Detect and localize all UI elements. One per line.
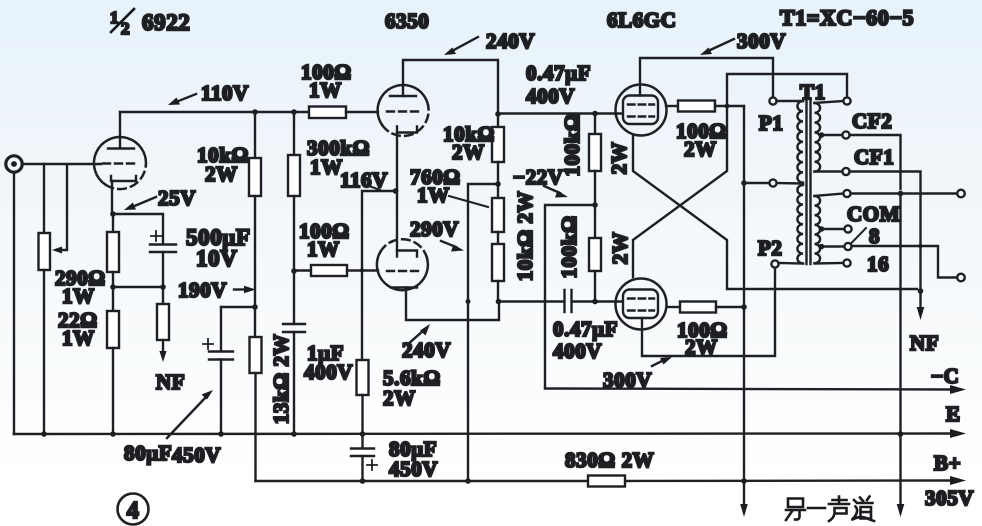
wire: NF stub with down arrow [159, 340, 166, 362]
wire: 25V node right to 500uF [113, 214, 163, 244]
svg-text:190V: 190V [178, 278, 227, 302]
resistor 13kΩ 2W [250, 337, 262, 373]
node: 116V cathode tail node [393, 188, 399, 194]
capacitor 1µF 400V [283, 324, 305, 332]
svg-text:116V: 116V [340, 168, 388, 192]
svg-text:400V: 400V [526, 84, 575, 108]
svg-text:240V: 240V [402, 338, 451, 362]
svg-text:400V: 400V [304, 360, 353, 384]
terminal CF2 [842, 131, 849, 138]
svg-text:T1=XC−60−5: T1=XC−60−5 [780, 5, 914, 30]
node: 1uF on E bus [291, 431, 297, 437]
terminal 16 ohm [843, 259, 850, 266]
terminal P2 [771, 260, 778, 267]
resistor 10kΩ 2W (lower of divider) [492, 244, 504, 281]
wire: CF2 to output common [850, 135, 901, 189]
terminal 8 ohm [844, 243, 851, 250]
terminal: speaker output upper [957, 190, 965, 198]
capacitor 500µF 10V [150, 231, 176, 252]
label other-channel (Chinese) [786, 497, 874, 522]
node: coupling node upper (V2a plate / U1 grid) [495, 111, 501, 117]
wire: CF1 tap lead [815, 170, 843, 172]
arrow: 240V lower label pointer [407, 324, 430, 345]
wire: lower coupling line to 6L6 grid [499, 300, 622, 302]
wire: U2 cathode cross-coupling up to CF2 winding [633, 74, 847, 277]
wire: cathode link between V2a and V2b [396, 191, 398, 251]
svg-text:2W: 2W [685, 335, 718, 359]
svg-text:240V: 240V [486, 29, 535, 53]
arrow: 25V label pointer [124, 197, 156, 210]
wire: CF2 tap lead [822, 134, 843, 136]
terminal: secondary top [843, 97, 850, 104]
arrow: 300V top label pointer [700, 39, 734, 55]
label circled 4 [118, 494, 149, 525]
svg-text:−22V: −22V [513, 165, 564, 189]
svg-text:300V: 300V [603, 368, 652, 392]
node: crossing blob at screen wire [725, 104, 730, 109]
potentiometer (volume) [39, 233, 51, 270]
terminal CF1 [842, 168, 849, 175]
svg-text:COM: COM [847, 202, 900, 226]
node: 290V feed tap [495, 181, 501, 187]
wire: centre tap link [744, 182, 769, 184]
wire: 190V node line [254, 196, 256, 337]
svg-text:P1: P1 [759, 111, 784, 135]
resistor 760Ω 1W [492, 198, 504, 232]
svg-text:10V: 10V [196, 246, 237, 271]
svg-text:1W: 1W [62, 326, 95, 350]
svg-text:2W: 2W [684, 137, 717, 161]
node: NF junction [918, 288, 924, 294]
svg-text:100kΩ: 100kΩ [560, 114, 584, 177]
wire: U2 screen resistor to riser [716, 306, 744, 308]
terminal: speaker output lower [957, 274, 965, 282]
svg-text:2: 2 [121, 19, 130, 38]
svg-text:2W: 2W [205, 162, 238, 186]
node: 290V riser on plate line [466, 299, 471, 304]
capacitor 80µF 450V (left) [203, 339, 233, 360]
capacitor 0.47µF 400V (lower coupling) [565, 290, 572, 312]
wire: COM tap lead [822, 228, 845, 230]
resistor 10kΩ 2W (upper of divider) [492, 114, 504, 162]
arrow: 80uF450V label pointer [167, 390, 213, 438]
svg-text:0.47μF: 0.47μF [553, 317, 618, 341]
wire: divider mid upper [497, 162, 499, 198]
node: 80uF right on B+ rail [360, 478, 366, 484]
node: 80uF left on E bus [218, 431, 224, 437]
wire: -22V node to -C rail [545, 205, 595, 388]
node: 290V riser on B+ rail [465, 478, 471, 484]
svg-text:100kΩ: 100kΩ [557, 216, 581, 279]
node: V2b grid node [291, 268, 297, 274]
node: crossing blob at grid wire [360, 268, 364, 272]
triode V2b 6350 (lower, inverted) [377, 239, 428, 290]
node: NF crossing blob on 8 ohm line [918, 244, 922, 248]
node: 22R on E bus [110, 431, 116, 437]
wire: 13k down through E bus to B+ rail [254, 373, 256, 481]
wire: 290R bottom to junction [112, 272, 114, 287]
wire: 300k drop [293, 112, 295, 155]
svg-text:305V: 305V [925, 486, 974, 510]
terminal: primary centre tap [769, 179, 776, 186]
resistor 290Ω 1W [107, 232, 119, 272]
svg-text:2W: 2W [608, 232, 632, 265]
wire: V1 cathode to 25V node [112, 181, 113, 214]
wire: 290V riser [468, 184, 498, 481]
wire: cathode tail to 5.6k [362, 191, 396, 360]
svg-text:450V: 450V [172, 443, 221, 467]
wire: selector arm slash [851, 228, 866, 244]
transformer T1 core [807, 100, 811, 264]
beam tetrode U1 6L6GC (upper) [616, 85, 667, 136]
wire: 16 ohm tap lead [815, 262, 844, 265]
resistor 100Ω 1W (V2a grid stopper) [309, 107, 346, 119]
resistor 22Ω 1W [107, 311, 119, 348]
wire: pot bottom to E bus [43, 270, 45, 434]
node: 110V line / 300k tap [291, 109, 297, 115]
resistor 830Ω 2W [588, 476, 625, 487]
svg-text:290V: 290V [410, 217, 459, 241]
terminal P1 [769, 97, 776, 104]
wire: 100R to V2a grid [346, 111, 378, 113]
wire: V2b plate lead [406, 288, 499, 321]
svg-text:2W: 2W [383, 386, 416, 410]
svg-text:0.47μF: 0.47μF [526, 61, 591, 85]
resistor 100Ω 2W (U2 screen) [680, 302, 716, 313]
resistor 100kΩ 2W (upper grid leak) [589, 114, 601, 171]
triode V2a 6350 (upper) [378, 85, 429, 136]
svg-text:400V: 400V [553, 339, 602, 363]
wire: junction bar y287 [113, 286, 163, 288]
svg-text:B+: B+ [934, 451, 961, 475]
svg-text:NF: NF [156, 370, 185, 394]
svg-text:6L6GC: 6L6GC [607, 8, 677, 32]
arrow: riser to other channel [740, 504, 748, 517]
wire: 80uF right bottom to B+ rail [361, 456, 363, 481]
node: -22V bias node [592, 202, 598, 208]
capacitor 80µF 450V (right) [351, 449, 377, 471]
svg-text:P2: P2 [758, 236, 783, 260]
svg-text:T1: T1 [800, 80, 826, 104]
svg-text:1W: 1W [309, 78, 342, 102]
wire: screen resistor to B+ riser top [715, 105, 744, 107]
arrow: output common to other channel 305V [897, 504, 905, 517]
wire: cathode node down to 290R [112, 214, 114, 232]
arrow: 290V label pointer [441, 241, 464, 252]
arrow: 116V label leader [369, 186, 380, 190]
svg-text:10kΩ 2W: 10kΩ 2W [513, 191, 537, 281]
wire: to -22V node [594, 171, 596, 238]
node: 110V line / 10k tap [252, 109, 258, 115]
resistor 10kΩ 2W (V1 plate load) [249, 158, 261, 196]
wire: U1 plate to P1 [640, 58, 773, 98]
wire: U1 screen lead [666, 105, 678, 107]
wire: 110V plate line [120, 111, 309, 113]
svg-text:8: 8 [869, 224, 880, 248]
wire: pot wiper arm [52, 165, 67, 254]
wire: U2 plate to P2 [642, 268, 775, 356]
wire: 190V node to 80uF cap [221, 306, 255, 308]
svg-text:13kΩ 2W: 13kΩ 2W [269, 334, 293, 424]
resistor 100kΩ 2W (lower grid leak) [589, 238, 601, 271]
arrow: -22V label pointer [544, 186, 568, 198]
rail: E (ground bus) [14, 429, 966, 438]
svg-text:1W: 1W [310, 155, 343, 179]
node: upper 100k grid node [592, 111, 598, 117]
node: CF2 join on output line [898, 191, 904, 197]
wire: output hot line [851, 192, 957, 194]
input jack J1 [6, 156, 22, 172]
node: riser / lower screen [741, 304, 747, 310]
rail: -C [545, 385, 966, 394]
wire: 8 ohm tap lead [822, 245, 845, 247]
resistor 100Ω 1W (V2b grid stopper) [294, 265, 347, 276]
svg-text:830Ω 2W: 830Ω 2W [565, 448, 654, 472]
node: 190V decoupling junction [252, 304, 258, 310]
wire: grid line to upper 6L6 [498, 112, 621, 114]
transformer T1 secondary CF winding [815, 101, 844, 172]
node: V2b plate junction [496, 299, 502, 305]
node: COM tap [819, 226, 825, 232]
svg-text:6350: 6350 [385, 9, 429, 33]
resistor 300kΩ 1W [288, 155, 300, 196]
svg-text:1W: 1W [307, 237, 340, 261]
wire: NF stub arrow [917, 291, 925, 320]
resistor 100Ω 2W (U1 screen) [678, 101, 715, 112]
wire: U1 cathode cross-coupling to CF line [633, 136, 917, 290]
arrow: 240V top label pointer [444, 37, 478, 55]
node: riser on B+ rail [741, 478, 747, 484]
wire: CF1 to NF stub [850, 172, 921, 292]
resistor NF feedback (unlabeled) [157, 287, 169, 340]
wire: divider bottom to plate junction [497, 281, 499, 301]
triode V1 1/2 6922 [94, 137, 146, 189]
node: lower 100k grid node [592, 299, 598, 305]
svg-text:CF2: CF2 [852, 109, 892, 133]
node: 5.6k on E bus [360, 431, 366, 437]
wire: 22R bottom to E bus [112, 348, 114, 434]
wire: divider mid lower [497, 232, 499, 244]
wire: V1 plate up to 110V line [119, 112, 121, 148]
wire: B+ riser (screens and centre tap) [743, 106, 745, 507]
svg-text:80μF: 80μF [124, 441, 172, 465]
terminal COM [844, 225, 851, 232]
transformer T1 secondary output winding [815, 194, 844, 264]
wire: 10k plate feed drop [254, 112, 256, 158]
wire: 5.6k bottom to E bus [361, 395, 363, 434]
beam tetrode U2 6L6GC (lower) [616, 279, 667, 330]
arrow: 110V label pointer [168, 94, 196, 105]
node: 8 ohm tap [819, 244, 825, 250]
arrow: 300V lower label pointer [652, 357, 672, 366]
svg-text:1W: 1W [62, 284, 95, 308]
terminal: output winding top [843, 190, 850, 197]
wire: 8 ohm output line [852, 246, 957, 278]
wire: jack to V1 grid [22, 163, 101, 165]
svg-text:25V: 25V [158, 186, 196, 210]
arrow: 760R label leader [449, 196, 488, 207]
wire: jack ground down to E bus [13, 172, 15, 434]
svg-text:110V: 110V [201, 81, 249, 105]
wire: V2a cathode down [396, 133, 398, 192]
wire: 100R to V2b grid [347, 269, 378, 271]
wire: 1uF bottom to E bus [293, 332, 295, 434]
node: cathode network junction [110, 284, 116, 290]
wire: V2a plate to coupling node [403, 60, 498, 114]
svg-text:CF1: CF1 [854, 145, 894, 169]
wire: 80uF bottom to E bus [220, 360, 222, 435]
wire: pot top drop [43, 164, 45, 233]
wire: 80uF top lead [220, 307, 222, 351]
svg-text:NF: NF [910, 331, 939, 355]
transformer T1 primary winding [773, 101, 803, 264]
node: 25V cathode node [110, 211, 116, 217]
node: 500uF bottom junction [160, 284, 166, 290]
wire: output common drop to E bus [899, 194, 901, 508]
svg-text:450V: 450V [389, 457, 438, 481]
wire: 300k bottom to V2b grid node [293, 196, 295, 271]
svg-text:2W: 2W [607, 142, 631, 175]
label 1/2 6922 [110, 8, 190, 38]
resistor 5.6kΩ 2W (tail) [357, 360, 369, 395]
node: riser / centre tap [741, 180, 747, 186]
node: output common on E bus [898, 431, 904, 437]
svg-text:−C: −C [931, 364, 959, 388]
svg-text:6922: 6922 [142, 10, 190, 35]
svg-text:2W: 2W [452, 140, 485, 164]
wire: 500uF bottom to junction [162, 252, 164, 287]
wire: grid node down to 1uF [293, 271, 295, 324]
node: CF2 tap [819, 132, 825, 138]
svg-text:1W: 1W [417, 183, 450, 207]
wire: U2 screen lead [667, 306, 680, 308]
node: pot bottom on E bus [41, 431, 47, 437]
wire: E bus down to 80uF right [361, 434, 363, 448]
wire: lower 100k to grid node [594, 271, 596, 301]
svg-text:300V: 300V [737, 29, 786, 53]
svg-text:16: 16 [867, 252, 889, 276]
svg-text:4: 4 [127, 498, 140, 524]
rail: B+ [256, 476, 967, 485]
svg-text:E: E [946, 402, 961, 426]
arrow: 190V label pointer [234, 286, 256, 293]
wire: junction down to 22R [112, 287, 114, 311]
